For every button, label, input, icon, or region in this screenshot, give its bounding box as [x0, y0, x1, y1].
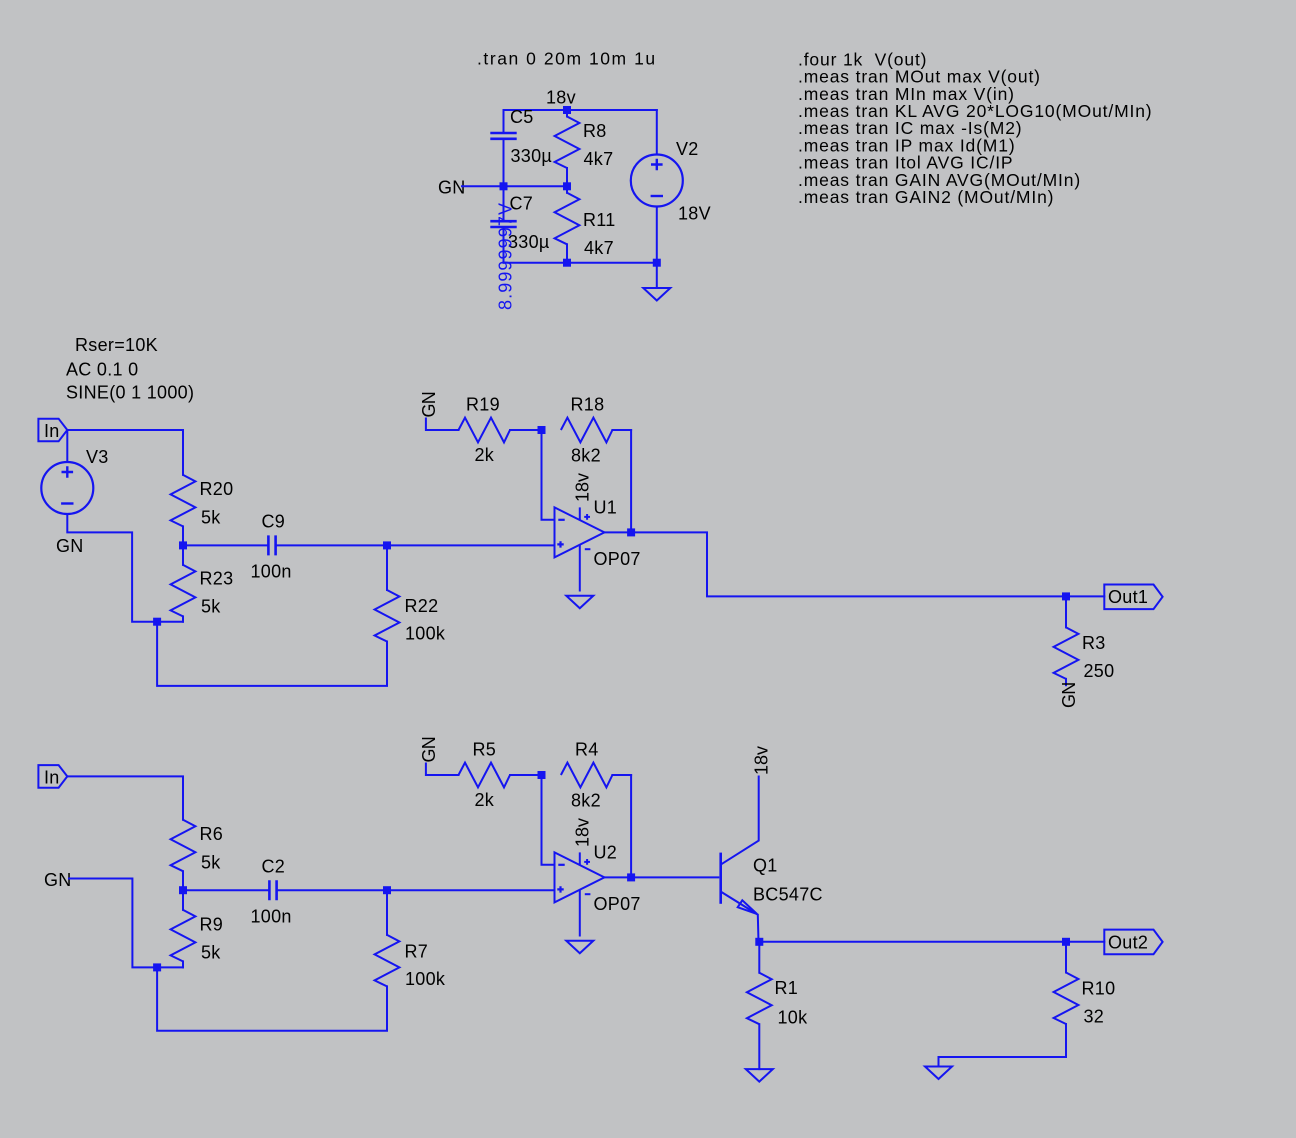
- node Out1 junction: [1062, 592, 1070, 600]
- resistor R1: [747, 942, 772, 1069]
- svg-text:SINE(0 1 1000): SINE(0 1 1000): [66, 383, 194, 403]
- svg-text:R18: R18: [571, 395, 605, 415]
- node C9-R22 junction: [383, 541, 391, 549]
- svg-text:C5: C5: [510, 107, 534, 127]
- net label GN R5 rotated: [419, 737, 439, 762]
- resistor R20: [171, 475, 196, 546]
- svg-text:R20: R20: [200, 479, 234, 499]
- label C5: [510, 107, 534, 127]
- wire U2 output to Q1 base: [604, 876, 718, 878]
- resistor R19: [426, 418, 542, 443]
- node stage1 bottom junction: [153, 618, 161, 626]
- resistor R4: [561, 763, 631, 788]
- svg-text:Rser=10K: Rser=10K: [75, 335, 158, 355]
- net label 18v Q1 rotated: [752, 746, 772, 775]
- svg-text:4k7: 4k7: [584, 149, 614, 169]
- ground under R10: [925, 1067, 952, 1080]
- wire stage2 bottom loop: [157, 967, 387, 1030]
- node R5-R4 junction: [538, 771, 546, 779]
- value 18V: [678, 204, 711, 224]
- value 8k2 R4: [571, 791, 601, 811]
- label U2: [594, 843, 618, 863]
- svg-text:18v: 18v: [573, 818, 593, 847]
- svg-text:100n: 100n: [251, 562, 292, 582]
- label R10: [1082, 979, 1116, 999]
- label V2: [676, 139, 699, 159]
- value 8k2 R18: [571, 446, 601, 466]
- wire junction to Out1 port: [1066, 595, 1104, 597]
- capacitor C9: [183, 535, 387, 555]
- resistor R10: [939, 942, 1079, 1067]
- node stage2 bottom junction: [153, 963, 161, 971]
- wire stage1 bottom loop: [157, 622, 387, 686]
- svg-text:5k: 5k: [201, 853, 221, 873]
- node C2-R7 junction: [383, 886, 391, 894]
- resistor R18: [561, 418, 631, 443]
- svg-text:100n: 100n: [251, 907, 292, 927]
- net label 18v U1 rotated: [573, 473, 593, 502]
- wire R23 bottom jog: [157, 621, 183, 623]
- svg-text:U2: U2: [594, 843, 618, 863]
- resistor R7: [375, 890, 400, 986]
- label V3: [86, 447, 109, 467]
- value 330u C7: [508, 232, 550, 252]
- svg-text:2k: 2k: [475, 445, 495, 465]
- transistor Q1: [721, 777, 759, 942]
- svg-text:GN: GN: [419, 392, 439, 417]
- svg-text:GN: GN: [419, 737, 439, 762]
- label R6: [200, 824, 224, 844]
- net label GN R19 rotated: [419, 392, 439, 417]
- label R22: [405, 596, 439, 616]
- net label GN R3 rotated: [1059, 683, 1079, 708]
- svg-text:OP07: OP07: [594, 549, 641, 569]
- value 4k7 R8: [584, 149, 614, 169]
- resistor R8: [555, 110, 580, 186]
- label R8: [583, 121, 607, 141]
- port Out2: [1104, 930, 1162, 955]
- wire In2 to R6: [67, 776, 183, 819]
- value 5k R23: [201, 597, 221, 617]
- resistor R9: [171, 890, 196, 967]
- value 100n C2: [251, 907, 292, 927]
- svg-text:18v: 18v: [546, 88, 576, 108]
- svg-text:R5: R5: [473, 740, 497, 760]
- svg-text:R23: R23: [200, 569, 234, 589]
- label BC547C: [753, 884, 823, 904]
- wire emitter to Out2: [759, 941, 1066, 943]
- svg-text:4k7: 4k7: [584, 238, 614, 258]
- resistor R23: [171, 545, 196, 621]
- label C9: [262, 512, 286, 532]
- svg-text:In: In: [44, 768, 60, 788]
- node R6-C2 junction: [179, 886, 187, 894]
- wire GN stage2: [69, 879, 157, 968]
- capacitor C2: [183, 880, 387, 900]
- resistor R3: [1054, 596, 1079, 685]
- net label 18v: [546, 88, 576, 108]
- svg-text:8.9999997V: 8.9999997V: [496, 202, 516, 310]
- node R19-R18 junction: [538, 426, 546, 434]
- resistor R22: [375, 545, 400, 641]
- svg-text:330µ: 330µ: [511, 146, 553, 166]
- directive .tran: [477, 49, 657, 69]
- svg-text:18v: 18v: [573, 473, 593, 502]
- svg-text:GN: GN: [44, 870, 72, 890]
- svg-text:AC 0.1 0: AC 0.1 0: [66, 360, 138, 380]
- node U2 output junction: [627, 873, 635, 881]
- value 100n C9: [251, 562, 292, 582]
- label Q1: [753, 855, 778, 875]
- svg-text:GN: GN: [1059, 683, 1079, 708]
- label R1: [775, 978, 799, 998]
- svg-text:R3: R3: [1082, 633, 1106, 653]
- svg-text:BC547C: BC547C: [753, 884, 823, 904]
- label U1: [594, 498, 618, 518]
- capacitor C5: [490, 110, 516, 186]
- node 18v junction: [563, 106, 571, 114]
- resistor R6: [171, 820, 196, 891]
- label C2: [262, 857, 286, 877]
- svg-text:R4: R4: [575, 740, 599, 760]
- svg-text:GN: GN: [438, 178, 466, 198]
- value 32 R10: [1084, 1007, 1105, 1027]
- label R19: [466, 395, 500, 415]
- label R7: [405, 942, 429, 962]
- node R20-C9 junction: [179, 541, 187, 549]
- svg-text:8k2: 8k2: [571, 791, 601, 811]
- voltage source V2: [631, 110, 683, 263]
- value text V3 params: [66, 335, 194, 403]
- label R5: [473, 740, 497, 760]
- value 250 R3: [1084, 661, 1115, 681]
- value 330u C5: [511, 146, 553, 166]
- wire R4 feedback: [630, 775, 632, 877]
- svg-text:GN: GN: [56, 536, 84, 556]
- ground under R1: [746, 1069, 773, 1082]
- svg-text:5k: 5k: [201, 943, 221, 963]
- label R9: [200, 915, 224, 935]
- label OP07 U1: [594, 549, 641, 569]
- label OP07 U2: [594, 894, 641, 914]
- svg-text:100k: 100k: [405, 624, 446, 644]
- label R4: [575, 740, 599, 760]
- directive .meas block: [798, 49, 1152, 207]
- wire In1 to R20: [67, 430, 183, 475]
- svg-text:32: 32: [1084, 1007, 1105, 1027]
- value 100k R22: [405, 624, 446, 644]
- node bottom-R junction: [563, 259, 571, 267]
- node bottom-V junction: [653, 259, 661, 267]
- label R23: [200, 569, 234, 589]
- voltage source V3: [41, 430, 157, 622]
- value 2k R19: [475, 445, 495, 465]
- port In stage2: [38, 765, 67, 788]
- ground under V2: [643, 263, 670, 301]
- net label 18v U2 rotated: [573, 818, 593, 847]
- port Out1: [1104, 585, 1162, 610]
- wire junction to U1 -in: [542, 430, 555, 520]
- wire C2 to U2 +in: [387, 889, 555, 891]
- value 100k R7: [405, 969, 446, 989]
- svg-text:R8: R8: [583, 121, 607, 141]
- wire 18v top rail: [504, 109, 657, 111]
- svg-text:18v: 18v: [752, 746, 772, 775]
- value 5k R6: [201, 853, 221, 873]
- svg-text:R6: R6: [200, 824, 224, 844]
- svg-text:5k: 5k: [201, 597, 221, 617]
- node U1 output junction: [627, 528, 635, 536]
- value 10k R1: [778, 1007, 809, 1027]
- svg-text:R11: R11: [583, 210, 616, 230]
- svg-text:R10: R10: [1082, 979, 1116, 999]
- wire bottom rail: [504, 262, 657, 264]
- svg-text:18V: 18V: [678, 204, 711, 224]
- svg-text:5k: 5k: [201, 508, 221, 528]
- wire junction to Out2 port: [1066, 941, 1104, 943]
- svg-text:R1: R1: [775, 978, 799, 998]
- wire GN rail: [462, 185, 567, 187]
- node emitter junction: [755, 938, 763, 946]
- wire R9 bottom jog: [157, 966, 183, 968]
- node GN-C junction: [500, 182, 508, 190]
- label C7: [510, 194, 534, 214]
- svg-text:Out1: Out1: [1108, 587, 1148, 607]
- svg-text:U1: U1: [594, 498, 618, 518]
- capacitor C7: [490, 186, 516, 262]
- svg-text:Out2: Out2: [1108, 932, 1148, 952]
- svg-text:R22: R22: [405, 596, 439, 616]
- wire junction to U2 -in: [542, 775, 555, 865]
- svg-text:10k: 10k: [778, 1007, 809, 1027]
- node GN-R junction: [563, 182, 571, 190]
- resistor R5: [426, 763, 542, 788]
- net label GN V3: [56, 536, 84, 556]
- value 5k R9: [201, 943, 221, 963]
- label R18: [571, 395, 605, 415]
- wire R18 feedback: [630, 430, 632, 532]
- svg-text:Q1: Q1: [753, 855, 778, 875]
- wire U1 output to Out1: [604, 532, 1066, 596]
- port In stage1: [38, 419, 67, 442]
- svg-text:V2: V2: [676, 139, 699, 159]
- node Out2 junction: [1062, 938, 1070, 946]
- svg-text:C9: C9: [262, 512, 286, 532]
- resistor R11: [555, 186, 580, 262]
- svg-text:250: 250: [1084, 661, 1115, 681]
- svg-text:R7: R7: [405, 942, 429, 962]
- svg-text:R9: R9: [200, 915, 224, 935]
- svg-text:8k2: 8k2: [571, 446, 601, 466]
- svg-text:In: In: [44, 421, 60, 441]
- svg-text:V3: V3: [86, 447, 109, 467]
- label R11: [583, 210, 616, 230]
- annotation 8.9999997V: [496, 202, 516, 310]
- net label GN top: [438, 178, 466, 198]
- svg-text:.meas tran GAIN2 (MOut/MIn): .meas tran GAIN2 (MOut/MIn): [798, 187, 1054, 207]
- svg-text:C2: C2: [262, 857, 286, 877]
- label R20: [200, 479, 234, 499]
- op-amp U2: [555, 852, 605, 953]
- svg-text:R19: R19: [466, 395, 500, 415]
- value 4k7 R11: [584, 238, 614, 258]
- net label GN stage2: [44, 870, 72, 890]
- value 2k R5: [475, 790, 495, 810]
- label R3: [1082, 633, 1106, 653]
- svg-text:OP07: OP07: [594, 894, 641, 914]
- wire C9 to U1 +in: [387, 544, 555, 546]
- svg-text:100k: 100k: [405, 969, 446, 989]
- value 5k R20: [201, 508, 221, 528]
- op-amp U1: [555, 507, 605, 608]
- svg-text:2k: 2k: [475, 790, 495, 810]
- svg-text:.tran 0 20m 10m 1u: .tran 0 20m 10m 1u: [477, 49, 657, 69]
